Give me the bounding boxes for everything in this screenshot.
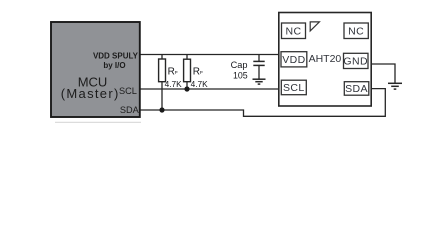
svg-text:VDD SPULY: VDD SPULY [93,52,139,61]
svg-text:NC: NC [348,25,364,37]
svg-text:AHT20: AHT20 [309,53,342,65]
svg-text:105: 105 [233,71,248,81]
svg-text:4.7K: 4.7K [165,79,183,89]
svg-text:SDA: SDA [345,83,368,95]
svg-text:P: P [175,70,178,75]
svg-text:P: P [200,70,203,75]
svg-text:SCL: SCL [283,82,305,94]
svg-text:Cap: Cap [231,60,248,70]
svg-text:GND: GND [343,56,368,68]
svg-text:SCL: SCL [119,86,137,96]
svg-text:(Master): (Master) [61,86,120,101]
svg-text:by I/O: by I/O [103,61,125,70]
svg-text:SDA: SDA [120,105,140,115]
svg-text:NC: NC [286,25,302,37]
svg-text:4.7K: 4.7K [191,79,209,89]
svg-text:VDD: VDD [282,54,305,66]
